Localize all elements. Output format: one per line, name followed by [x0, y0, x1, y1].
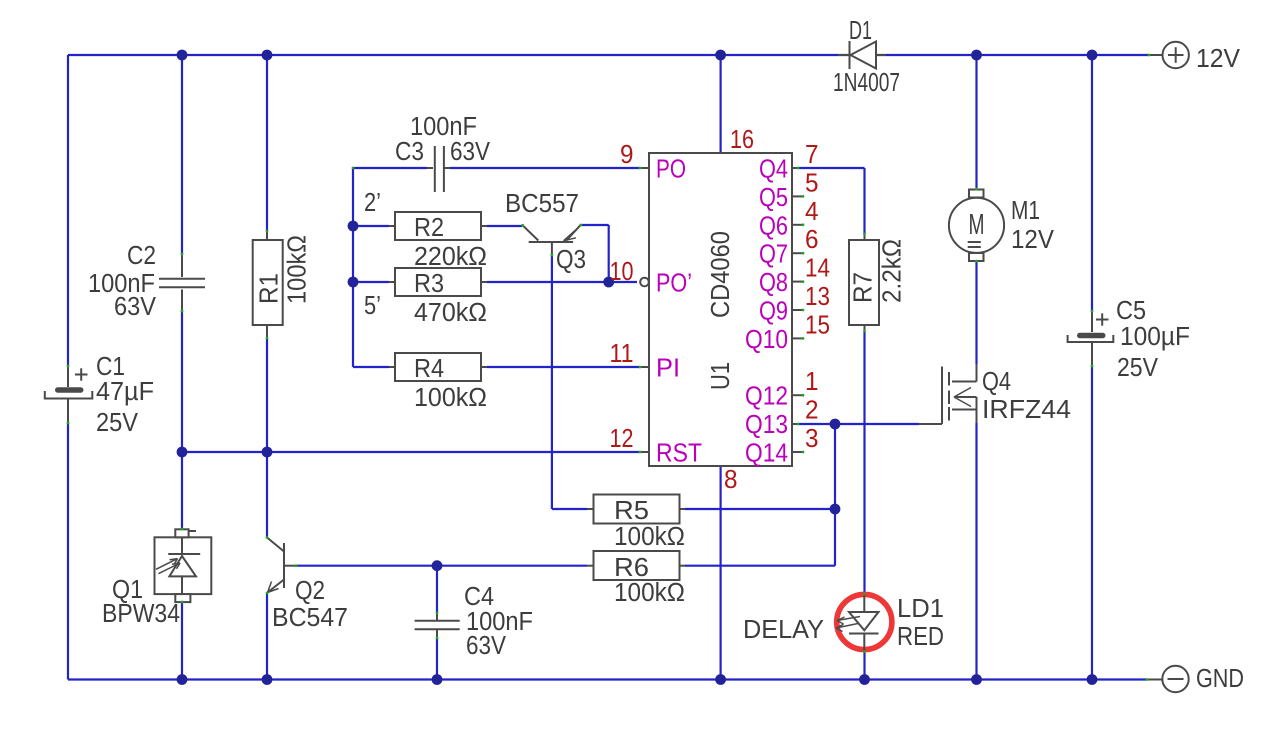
wire R7 bottom through LED column	[864, 325, 866, 331]
wire C5 column	[1091, 55, 1093, 311]
pin stub Q12	[792, 394, 802, 396]
svg-text:10: 10	[610, 256, 634, 286]
svg-text:RED: RED	[897, 621, 944, 651]
svg-text:470kΩ: 470kΩ	[414, 297, 487, 327]
plus sign C5	[1096, 319, 1109, 321]
transistor Q4 (IRFZ44 N-MOSFET)	[919, 364, 977, 424]
node R2/R3 bus junctions	[348, 221, 359, 232]
svg-text:R2: R2	[414, 212, 444, 242]
ground terminal GND	[1162, 666, 1188, 692]
svg-text:Q7: Q7	[759, 239, 788, 269]
power terminal +12V	[1163, 42, 1189, 68]
svg-text:47µF: 47µF	[96, 376, 154, 406]
wire GND terminal stub	[1147, 679, 1162, 681]
connection tips	[639, 167, 642, 170]
wire R3 right / pin 10 node	[481, 281, 487, 283]
pin stub Q9	[792, 309, 802, 311]
svg-text:2’: 2’	[364, 187, 381, 217]
node RST row junctions	[177, 447, 188, 458]
wire Q13 node vertical	[834, 424, 836, 566]
svg-text:9: 9	[620, 139, 634, 169]
svg-text:Q14: Q14	[745, 438, 788, 468]
wire bottom rail (GND)	[68, 678, 1147, 680]
capacitor C4	[415, 613, 460, 638]
svg-text:5: 5	[805, 167, 819, 197]
svg-text:11: 11	[610, 338, 634, 368]
svg-text:RST: RST	[656, 438, 702, 468]
node pin10 junction	[603, 277, 614, 288]
svg-text:Q4: Q4	[759, 154, 788, 184]
diode D1	[838, 54, 849, 56]
wire R1/Q2 column vertical	[266, 55, 268, 231]
op-amp/IC U1 CD4060 body	[649, 153, 792, 466]
svg-text:GND: GND	[1196, 663, 1244, 693]
svg-text:12: 12	[610, 423, 634, 453]
pin stub Q7	[792, 252, 802, 254]
resistor R1	[253, 231, 283, 338]
wire R4 right to IC pin 11	[481, 366, 487, 368]
wire top rail right segment	[876, 54, 1149, 56]
LED LD1 symbol	[836, 594, 879, 652]
svg-text:220kΩ: 220kΩ	[414, 241, 487, 271]
wire R4 left	[353, 366, 389, 368]
svg-text:Q13: Q13	[745, 409, 788, 439]
svg-text:M: M	[969, 209, 985, 241]
svg-text:Q8: Q8	[759, 267, 788, 297]
wire IC pin 8 to bottom rail	[719, 466, 721, 680]
svg-text:Q10: Q10	[745, 324, 788, 354]
svg-text:BPW34: BPW34	[102, 598, 180, 628]
node top rail junctions	[177, 50, 188, 61]
wire pin 2 (Q13) to MOSFET gate	[792, 423, 798, 425]
wire R2 right to Q3 collector	[481, 225, 487, 227]
svg-text:2.2kΩ: 2.2kΩ	[877, 239, 907, 303]
wire R2 left	[353, 225, 389, 227]
pin stub Q10	[792, 337, 802, 339]
wire R6 right	[679, 565, 685, 567]
wire Q3 emitter to pin10 column	[581, 224, 609, 226]
pin 10 inversion bubble	[640, 278, 649, 287]
pin stub Q8	[792, 281, 802, 283]
svg-text:R4: R4	[414, 353, 444, 383]
svg-text:D1: D1	[849, 15, 872, 45]
svg-text:Q3: Q3	[556, 244, 586, 274]
svg-text:100µF: 100µF	[1120, 321, 1190, 351]
svg-text:BC557: BC557	[505, 188, 579, 218]
wire left edge vertical (through C1)	[67, 55, 69, 366]
node Q13 junctions	[830, 419, 841, 430]
svg-text:PO: PO	[656, 154, 686, 184]
svg-text:BC547: BC547	[272, 602, 348, 632]
svg-text:3: 3	[805, 423, 819, 453]
svg-text:DELAY: DELAY	[743, 614, 824, 644]
wire pin 7 (Q4 out) to R7 top	[792, 167, 798, 169]
LED LD1 ring	[837, 594, 892, 649]
svg-text:63V: 63V	[114, 291, 156, 321]
svg-text:100kΩ: 100kΩ	[614, 521, 685, 551]
capacitor C5 (polarized)	[1068, 311, 1114, 366]
svg-text:R3: R3	[414, 268, 444, 298]
capacitor C1 (polarized)	[45, 366, 93, 423]
resistor R4	[395, 353, 481, 381]
capacitor C2	[159, 254, 205, 311]
svg-text:8: 8	[724, 464, 738, 494]
plus sign C1	[75, 374, 88, 376]
svg-text:Q9: Q9	[759, 296, 788, 326]
svg-text:Q4: Q4	[982, 366, 1011, 396]
svg-text:4: 4	[805, 196, 819, 226]
svg-text:R1: R1	[254, 273, 284, 304]
resistor R5	[594, 495, 680, 524]
svg-text:2: 2	[805, 395, 819, 425]
transistor Q2 (BC547 NPN)	[267, 538, 296, 593]
wire R5 right	[679, 508, 685, 510]
svg-text:16: 16	[730, 124, 754, 154]
wire IC pin 16 to top rail	[719, 55, 721, 153]
wire R2/R3/R4 left bus vertical	[352, 168, 354, 367]
svg-text:100kΩ: 100kΩ	[282, 235, 312, 304]
svg-text:M1: M1	[1011, 195, 1040, 225]
svg-text:25V: 25V	[96, 407, 138, 437]
node bottom rail junctions	[177, 674, 188, 685]
wire C4 column	[436, 566, 438, 613]
svg-text:R7: R7	[848, 272, 878, 303]
svg-text:12V: 12V	[1011, 224, 1054, 254]
svg-text:7: 7	[805, 139, 819, 169]
svg-text:PI: PI	[656, 353, 680, 383]
svg-text:25V: 25V	[1117, 352, 1158, 382]
node R6/C4 junction	[432, 560, 443, 571]
svg-text:1N4007: 1N4007	[833, 67, 900, 97]
svg-text:C2: C2	[127, 240, 156, 270]
resistor R3	[395, 268, 481, 296]
wire M1 column from top rail	[975, 55, 977, 189]
svg-text:PO’: PO’	[656, 268, 692, 298]
wire R3 left	[353, 281, 389, 283]
photodiode Q1 (BPW34)	[155, 529, 212, 602]
wire RST row from C2 column to IC pin 12	[182, 451, 640, 453]
wire top rail left segment (12V rail)	[68, 54, 849, 56]
wire C2 column vertical	[181, 55, 183, 254]
svg-text:IRFZ44: IRFZ44	[982, 394, 1071, 424]
wire C3 row / pin 9	[353, 167, 427, 169]
pin stub Q6	[792, 224, 802, 226]
svg-text:15: 15	[805, 309, 830, 339]
svg-text:U1: U1	[705, 362, 735, 390]
svg-text:100kΩ: 100kΩ	[414, 382, 487, 412]
svg-text:Q6: Q6	[759, 210, 788, 240]
svg-text:14: 14	[805, 253, 830, 283]
svg-text:63V: 63V	[450, 136, 490, 166]
svg-text:Q5: Q5	[759, 182, 788, 212]
svg-text:6: 6	[805, 224, 819, 254]
resistor R7	[849, 240, 879, 325]
resistor R2	[395, 212, 481, 240]
svg-text:CD4060: CD4060	[705, 231, 735, 318]
pin stub Q5	[792, 195, 802, 197]
svg-text:63V: 63V	[466, 630, 506, 660]
svg-text:Q12: Q12	[745, 381, 788, 411]
svg-text:1: 1	[805, 366, 819, 396]
svg-text:5’: 5’	[364, 290, 381, 320]
wire Q2 base to R6 left	[296, 565, 587, 567]
capacitor C3	[435, 146, 444, 192]
svg-text:LD1: LD1	[897, 593, 944, 623]
svg-text:C3: C3	[395, 136, 424, 166]
svg-text:Q2: Q2	[295, 575, 325, 605]
resistor R6	[594, 551, 680, 580]
wire MOSFET source to bottom rail	[975, 423, 977, 680]
wire M1 bottom to MOSFET drain	[975, 261, 977, 364]
svg-text:13: 13	[805, 281, 830, 311]
wire 12V terminal stub	[1149, 54, 1162, 56]
svg-text:100kΩ: 100kΩ	[614, 577, 685, 607]
svg-text:12V: 12V	[1196, 43, 1240, 73]
transistor Q3 (BC557 PNP)	[523, 225, 581, 255]
motor M1	[949, 190, 1004, 262]
wire Q3 base down to R5	[551, 255, 553, 509]
pin stub Q14	[792, 451, 802, 453]
